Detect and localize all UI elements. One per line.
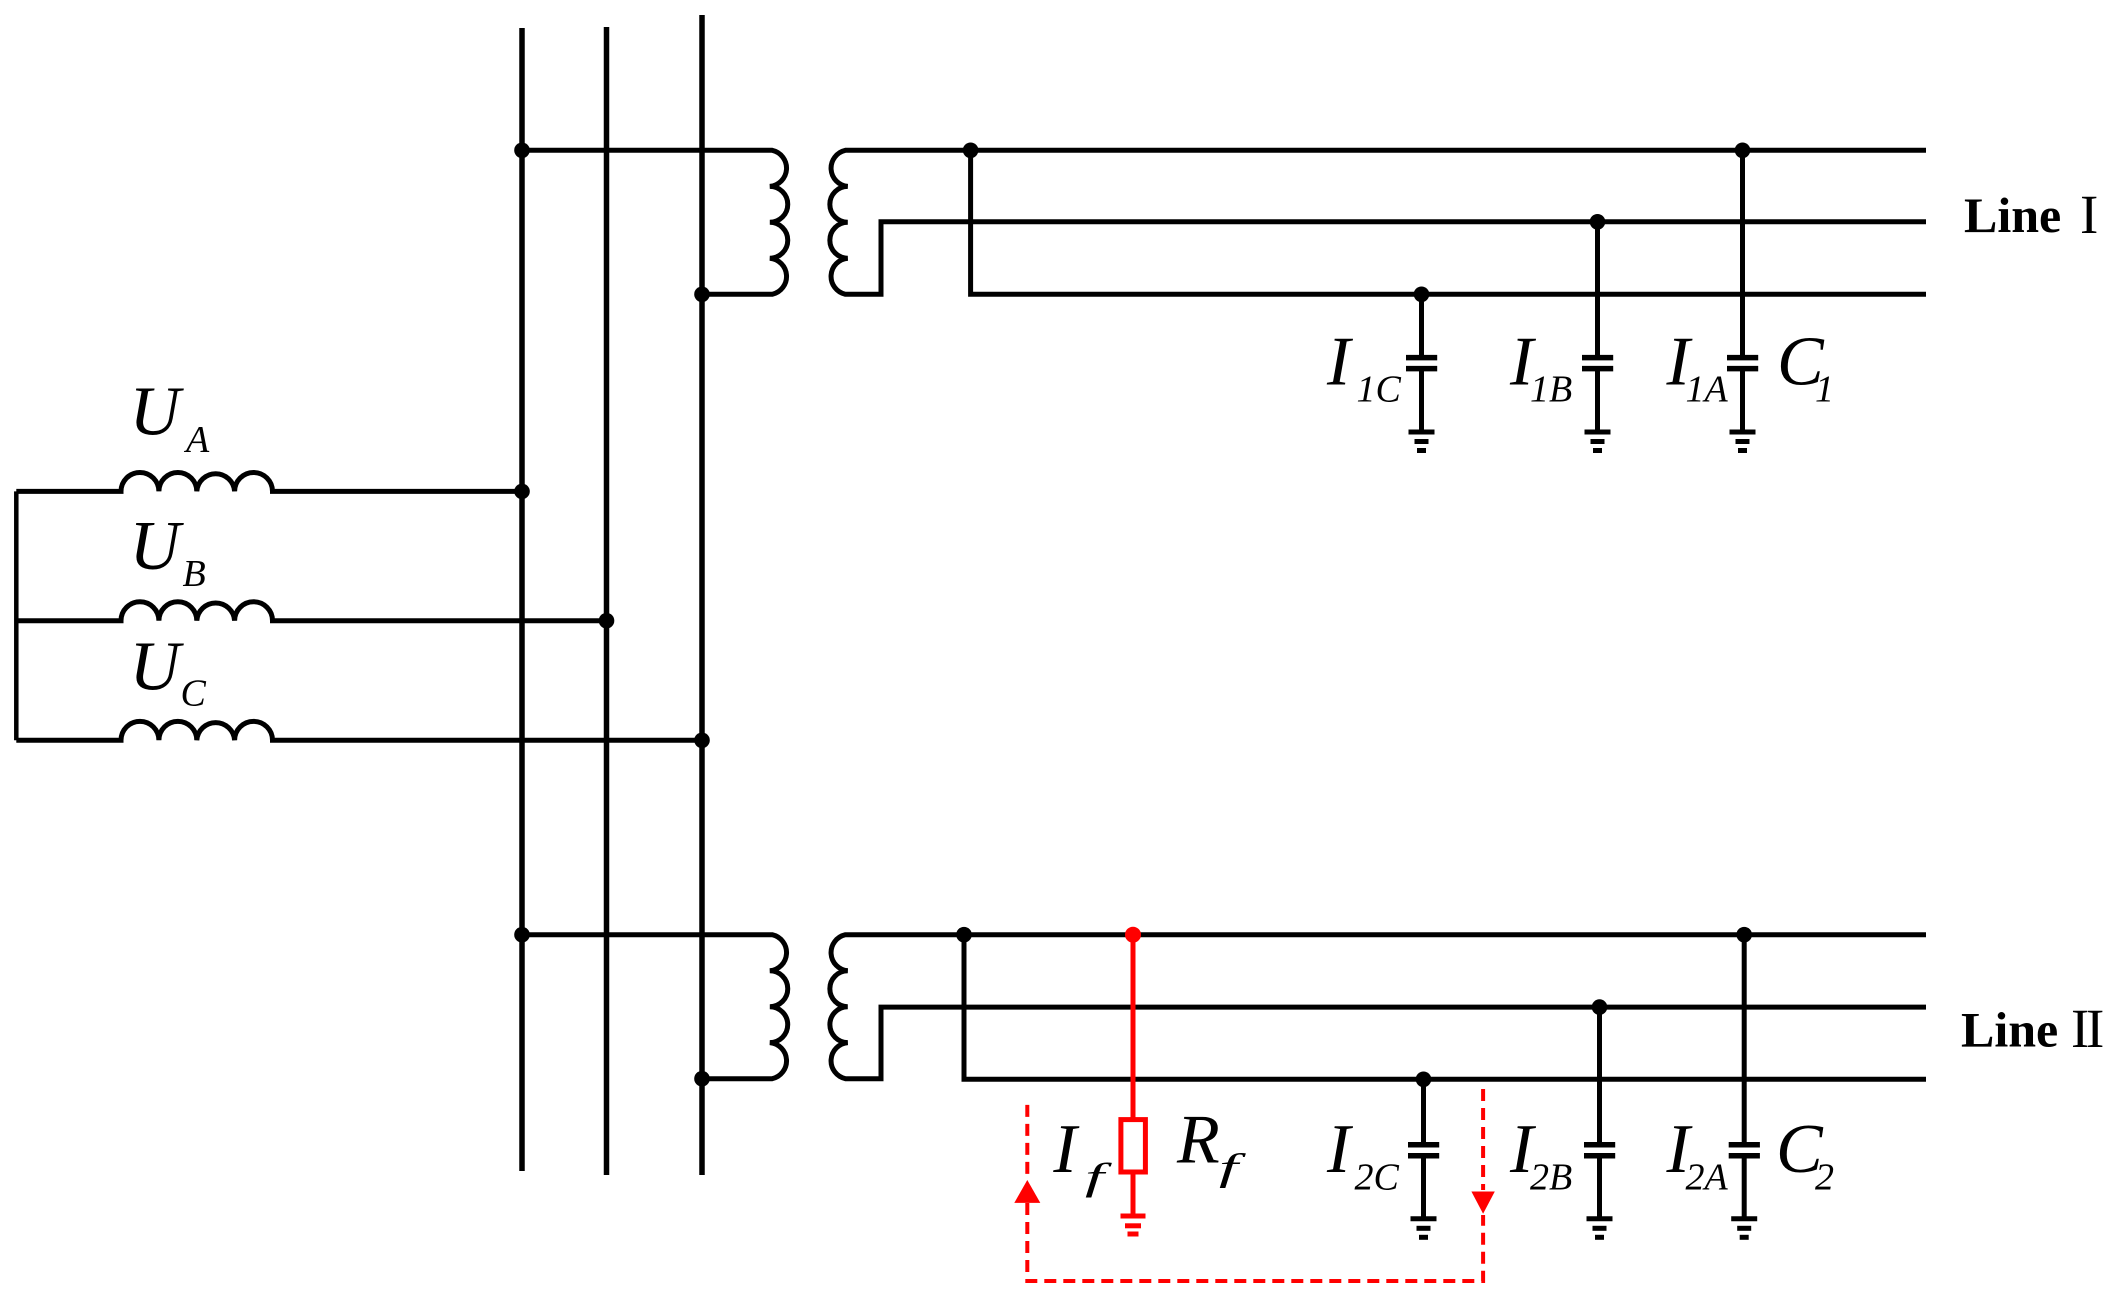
ground (Rf, red) (1121, 1216, 1146, 1234)
svg-text:B: B (183, 553, 206, 595)
ground (C1 phase B) (1585, 432, 1611, 451)
svg-text:II: II (2071, 998, 2103, 1059)
junction dot Line I top drop (963, 143, 979, 159)
wire: Line I phase C drop and bottom conductor (971, 150, 1926, 294)
svg-text:R: R (1176, 1102, 1220, 1179)
junction dot Line II top drop (956, 927, 972, 943)
resistor Rf (1121, 1120, 1146, 1172)
ground (C2 phase B) (1587, 1219, 1613, 1238)
label Line II (1961, 998, 2103, 1059)
label Rf (1176, 1102, 1246, 1190)
transformer T2 primary winding (522, 935, 788, 1079)
inductor UB (source winding B) (16, 602, 606, 621)
svg-text:U: U (130, 374, 185, 451)
capacitor C2 phase B branch (I2B) (1584, 1007, 1615, 1217)
bus C (vertical busbar 3) (699, 15, 705, 1175)
svg-text:1C: 1C (1357, 369, 1402, 411)
ground (C1 phase C) (1409, 432, 1435, 451)
junction dot bus A / T2 primary top (514, 927, 530, 943)
svg-text:2C: 2C (1355, 1157, 1400, 1199)
svg-text:C: C (181, 673, 207, 715)
capacitor C1 phase B branch (I1B) (1582, 222, 1613, 430)
ground (C2 phase A) (1731, 1219, 1757, 1238)
junction dot bus B / UB (599, 613, 615, 629)
ground (C2 phase C) (1411, 1219, 1437, 1238)
bus A (vertical busbar 1) (519, 28, 525, 1171)
svg-text:1: 1 (1815, 369, 1834, 411)
junction dot bus A / UA (514, 484, 530, 500)
transformer T2 secondary winding + Line II phase A conductor (830, 935, 1926, 1079)
svg-text:I: I (1052, 1111, 1080, 1188)
capacitor C1 phase C branch (I1C) (1406, 294, 1437, 430)
label I1A (1666, 324, 1729, 411)
wire: below Rf (red) (1131, 1172, 1136, 1214)
ground (C1 phase A) (1730, 432, 1756, 451)
junction dot bus A / T1 primary top (514, 143, 530, 159)
junction dot I2C (1416, 1072, 1432, 1088)
junction dot I2A (1736, 927, 1752, 943)
junction dot bus C / T2 primary bottom (694, 1071, 710, 1087)
capacitor C1 phase A branch (I1A) (1727, 150, 1758, 430)
inductor UA (source winding A) (16, 472, 522, 491)
node fault point (red dot) (1125, 927, 1141, 943)
label I2A (1666, 1111, 1729, 1199)
junction dot I2B (1592, 999, 1608, 1015)
svg-text:2B: 2B (1530, 1157, 1572, 1199)
transformer T1 primary winding (522, 150, 788, 294)
label I1B (1509, 324, 1572, 411)
arrow down (return direction) (1471, 1192, 1494, 1214)
svg-text:I: I (1326, 1111, 1354, 1188)
label UB (130, 508, 206, 595)
label UC (130, 629, 207, 715)
label If (1052, 1111, 1112, 1199)
svg-text:U: U (130, 629, 185, 706)
wire: fault current loop dashed bottom (red) (1027, 1203, 1483, 1281)
capacitor C2 phase A branch (I2A) (1729, 935, 1760, 1217)
svg-text:Line: Line (1961, 1001, 2058, 1057)
wire: source loop left vertical (14, 491, 19, 740)
svg-text:A: A (183, 419, 210, 461)
svg-text:I: I (2080, 184, 2098, 245)
label Line I (1964, 184, 2098, 245)
svg-text:2A: 2A (1686, 1157, 1729, 1199)
svg-text:1B: 1B (1530, 369, 1572, 411)
junction dot I1A (1735, 143, 1751, 159)
wire: fault current loop dashed up-segment (red) (1025, 1105, 1029, 1178)
svg-text:2: 2 (1815, 1157, 1834, 1199)
label I2C (1326, 1111, 1400, 1199)
wire: Line II phase C drop and bottom conductor (964, 935, 1926, 1080)
label C2 (1776, 1111, 1834, 1199)
wire: fault branch vertical (red) (1131, 935, 1136, 1120)
junction dot bus C / T1 primary bottom (694, 287, 710, 303)
label C1 (1777, 324, 1834, 411)
transformer T1 secondary winding + Line I phase A conductor (830, 150, 1926, 294)
bus B (vertical busbar 2) (604, 27, 610, 1175)
capacitor C2 phase C branch (I2C) (1408, 1079, 1439, 1216)
label UA (130, 374, 211, 462)
arrow up (If direction) (1014, 1180, 1040, 1203)
junction dot bus C / UC (694, 733, 710, 749)
label I1C (1326, 324, 1402, 411)
label I2B (1509, 1111, 1572, 1199)
junction dot I1C (1414, 287, 1430, 303)
svg-text:1A: 1A (1686, 369, 1729, 411)
wire: fault current loop dashed right-upper segment (red) (1481, 1089, 1485, 1190)
svg-text:Line: Line (1964, 187, 2061, 243)
svg-text:I: I (1326, 324, 1354, 401)
svg-text:U: U (130, 508, 185, 585)
inductor UC (source winding C) (16, 721, 702, 740)
junction dot I1B (1590, 214, 1606, 230)
